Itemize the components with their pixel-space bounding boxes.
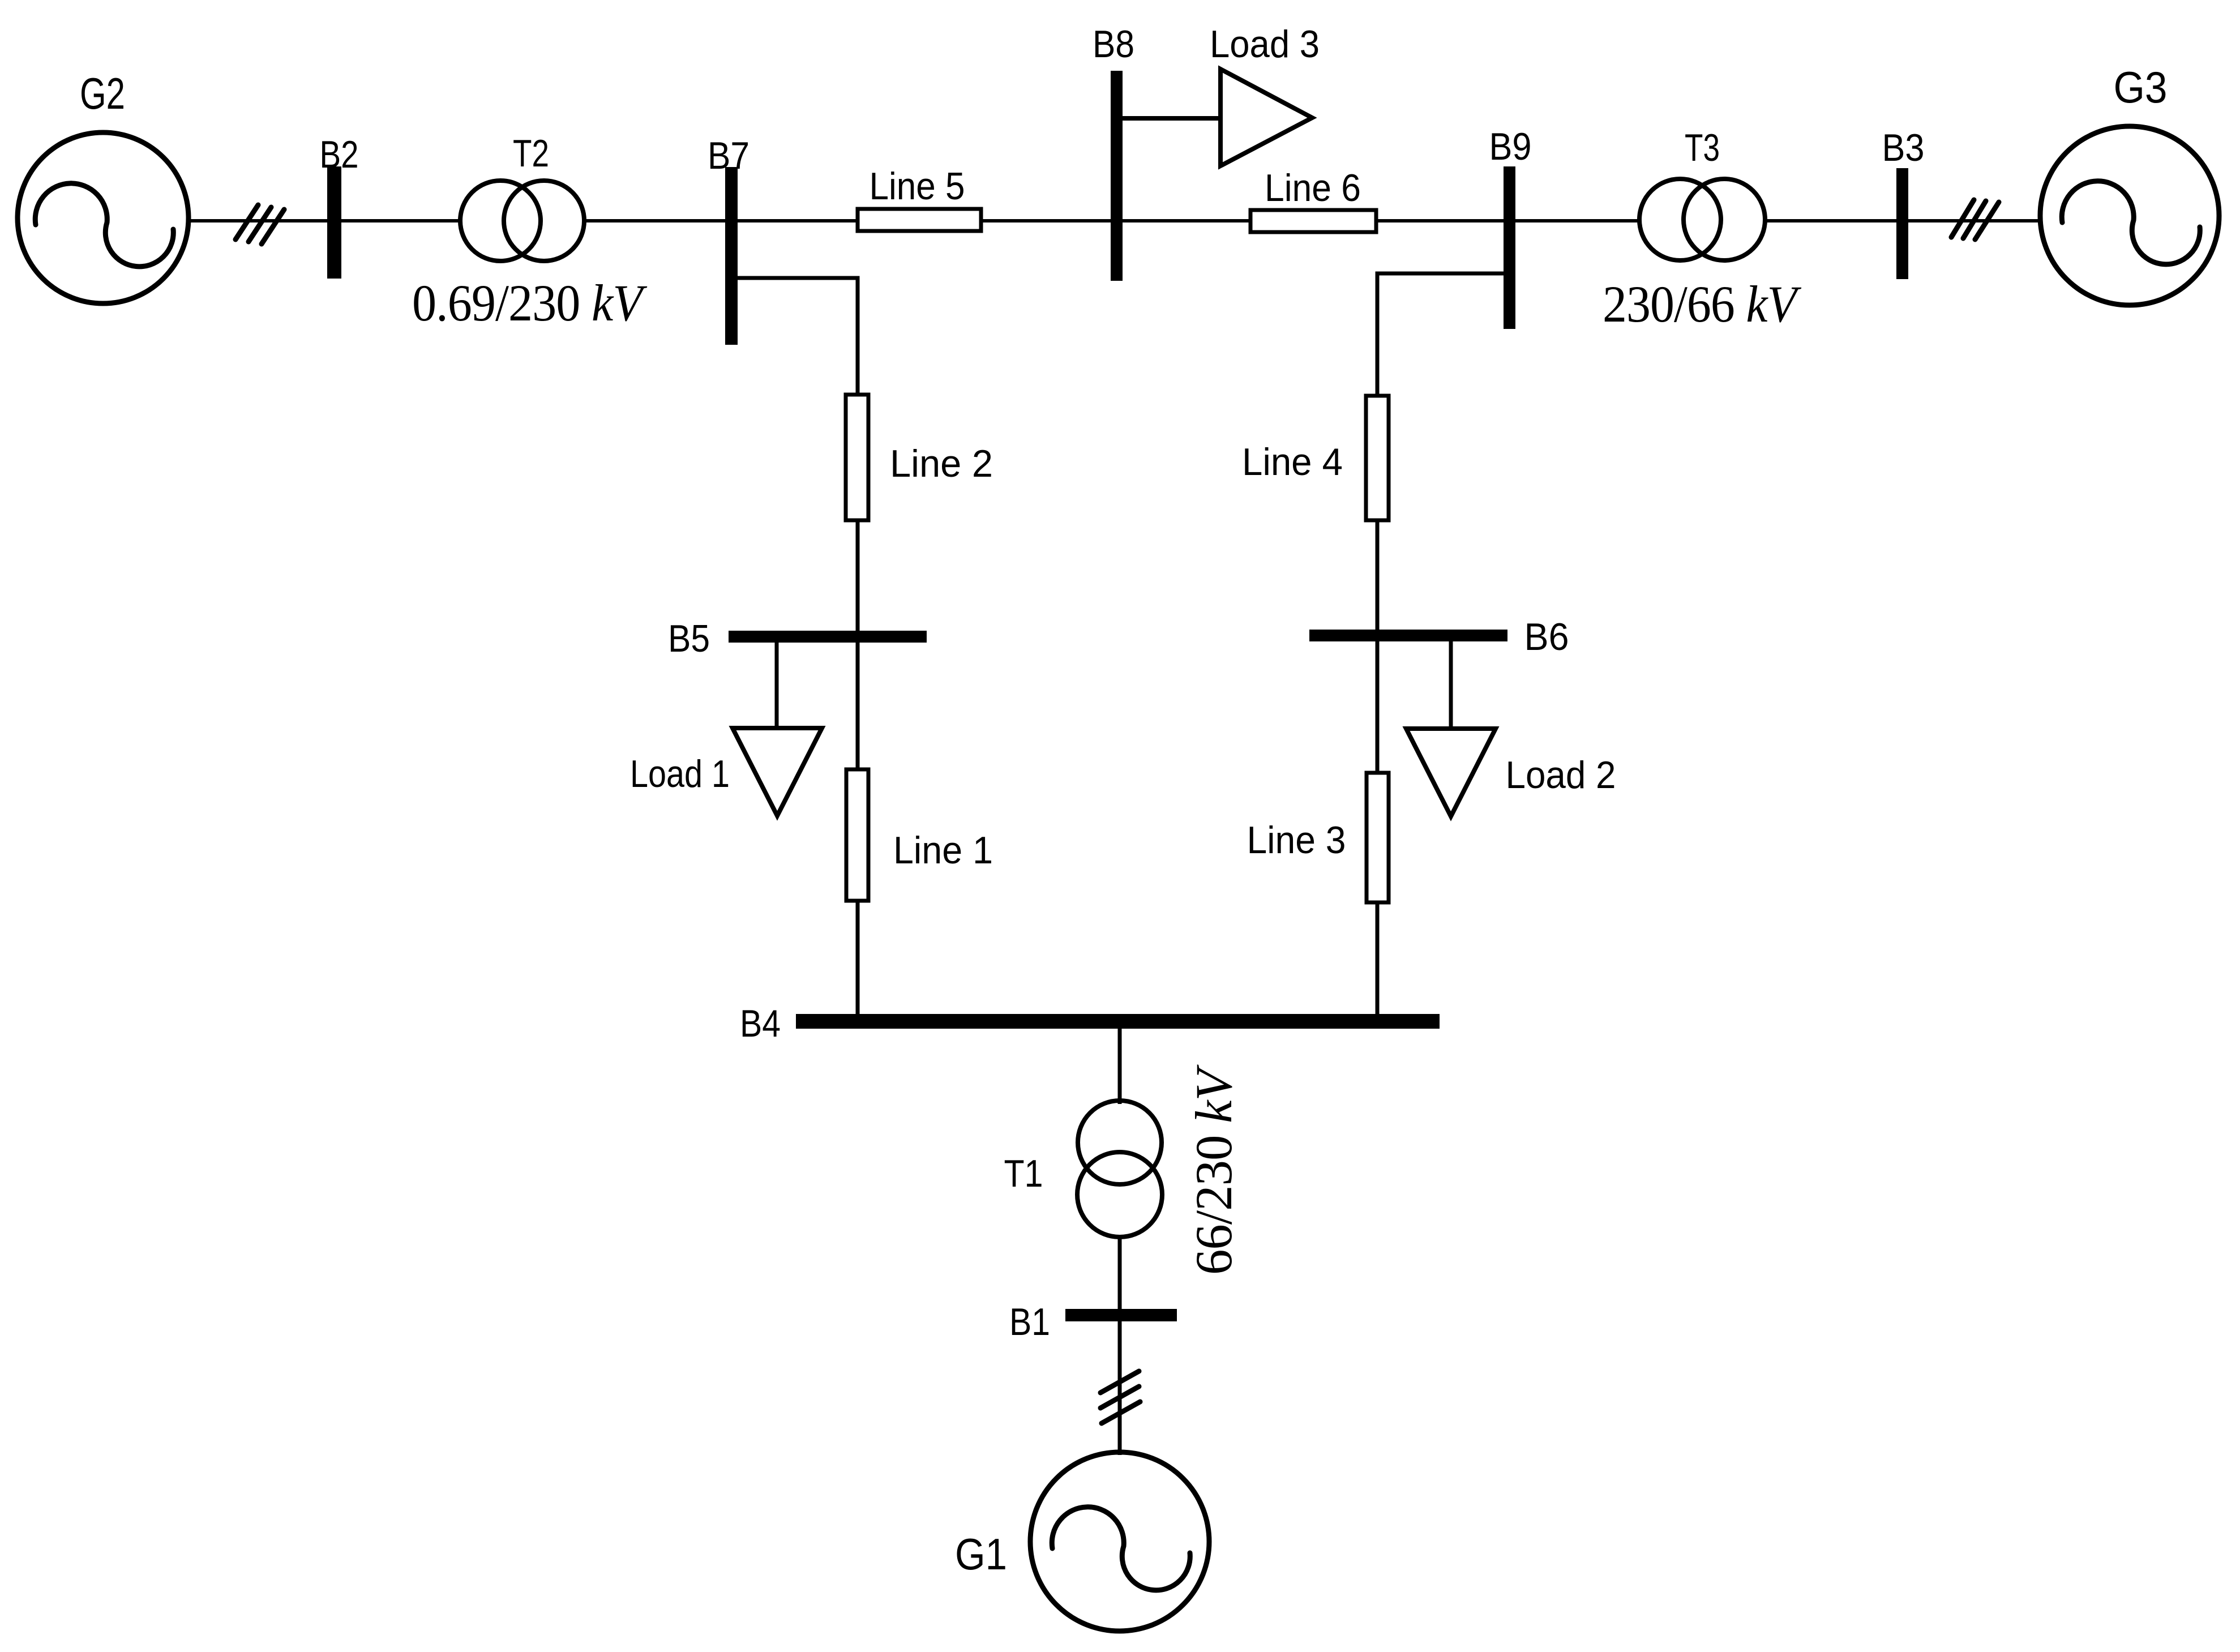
wire T3 to B3 [1765,219,1902,222]
bus B4 [796,1014,1440,1029]
svg-text:230/66 kV: 230/66 kV [1603,275,1802,333]
wire stub from B7 down-leg [734,278,858,397]
svg-text:G3: G3 [2114,62,2168,112]
wire B9 to T3 [1515,219,1641,222]
transformer T2 [460,181,584,261]
line 3 [1367,773,1389,902]
line 2 [846,395,868,520]
bus B1 [1065,1309,1177,1321]
svg-text:Load 3: Load 3 [1210,23,1320,66]
wire B5 to Load 1 [775,643,779,730]
bus B2 [327,166,341,279]
svg-text:B6: B6 [1524,615,1569,658]
wire Line 2 to B5 [856,520,860,637]
generator G1 [1030,1452,1209,1631]
wire B8 to Line 6 [1123,219,1250,222]
svg-text:G2: G2 [80,69,125,118]
wire B4 to T1 [1118,1029,1122,1104]
3-phase slashes on G1 wire [1100,1371,1140,1423]
svg-text:T1: T1 [1004,1152,1043,1195]
svg-text:66/230 kV: 66/230 kV [1185,1064,1243,1275]
wire Line 5 to B8 [981,219,1116,222]
load Load 1 [733,728,822,816]
svg-text:B4: B4 [740,1002,781,1045]
bus B8 [1111,71,1123,281]
bus B9 [1504,166,1515,329]
svg-text:B8: B8 [1093,23,1134,66]
svg-text:Line 3: Line 3 [1247,819,1346,862]
wire T2 to B7 [584,219,731,222]
svg-text:T3: T3 [1685,126,1720,169]
svg-text:Line 1: Line 1 [893,829,993,872]
line 5 [858,209,981,231]
svg-text:B9: B9 [1489,125,1532,168]
svg-text:Line 2: Line 2 [890,442,993,485]
svg-text:B7: B7 [708,134,749,177]
wire B3 to G3 [1908,219,2041,222]
line 6 [1250,210,1376,232]
wire Line 1 to B4 [856,901,860,1016]
wire Line 3 to B4 [1376,902,1380,1016]
transformer T3 [1639,179,1765,260]
line 1 [846,769,868,901]
wire T1 to B1 [1118,1236,1122,1311]
svg-text:B3: B3 [1882,126,1925,169]
svg-text:Line 4: Line 4 [1242,440,1343,483]
transformer T1 [1077,1101,1162,1237]
wire B7 to Line 5 [738,219,858,222]
wire B1 to G1 [1118,1321,1122,1455]
bus B3 [1896,168,1908,279]
bus B7 [725,167,738,345]
3-phase slashes on G2 wire [235,205,284,244]
wire B6 to Line 3 [1376,641,1380,774]
bus B6 [1309,630,1507,641]
3-phase slashes on G3 wire [1951,200,1999,239]
wire B5 to Line 1 [856,643,860,771]
wire Line 6 to B9 [1376,219,1509,222]
wire G2 to T2 [187,219,462,222]
svg-text:B5: B5 [668,617,710,660]
generator G3 [2040,126,2219,305]
svg-text:Line 6: Line 6 [1265,166,1361,209]
load Load 3 [1220,69,1312,166]
load Load 2 [1406,729,1496,816]
line 4 [1366,396,1389,520]
wire B8 to Load 3 [1123,116,1222,121]
wire stub from B9 down-leg [1377,273,1507,397]
svg-text:T2: T2 [513,132,549,175]
svg-text:Load 2: Load 2 [1506,754,1616,797]
svg-text:Load 1: Load 1 [630,752,730,795]
svg-text:Line 5: Line 5 [870,165,965,208]
wire Line 4 to B6 [1376,520,1380,635]
svg-text:0.69/230 kV: 0.69/230 kV [412,274,648,332]
svg-text:G1: G1 [955,1529,1007,1579]
svg-text:B1: B1 [1009,1300,1050,1343]
bus B5 [729,631,927,643]
generator G2 [18,132,189,303]
wire B6 to Load 2 [1449,641,1453,731]
svg-text:B2: B2 [320,133,359,176]
